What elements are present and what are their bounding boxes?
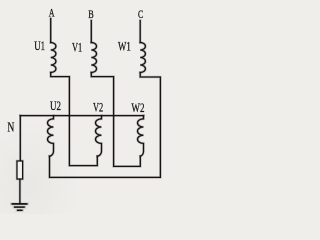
- svg-text:U2: U2: [50, 98, 61, 113]
- svg-text:A: A: [49, 8, 55, 20]
- winding V1: [91, 43, 96, 73]
- ground: [12, 204, 28, 210]
- wire resistor to ground: [19, 179, 21, 203]
- svg-text:W1: W1: [118, 39, 131, 54]
- svg-text:B: B: [88, 9, 94, 21]
- winding U2: [48, 116, 54, 157]
- svg-text:C: C: [138, 9, 143, 21]
- svg-text:U1: U1: [34, 38, 45, 53]
- wire A to U1: [50, 19, 52, 43]
- wire C to W1: [139, 21, 141, 43]
- neutral bus N: [20, 115, 143, 117]
- winding V2: [96, 116, 102, 157]
- svg-text:N: N: [7, 121, 14, 136]
- svg-text:W2: W2: [131, 100, 144, 115]
- resistor R neutral grounding: [17, 161, 23, 179]
- wire V1 bottom to W2 bottom: [91, 73, 140, 167]
- wire W1 bottom to U2 bottom: [50, 73, 161, 178]
- winding W1: [140, 43, 145, 73]
- svg-text:V1: V1: [72, 40, 82, 55]
- winding W2: [138, 116, 144, 157]
- svg-text:V2: V2: [93, 100, 103, 115]
- winding U1: [51, 43, 56, 73]
- wire B to V1: [90, 21, 92, 43]
- wire U1 bottom to V2 bottom: [51, 73, 98, 166]
- wire N to resistor: [19, 116, 21, 161]
